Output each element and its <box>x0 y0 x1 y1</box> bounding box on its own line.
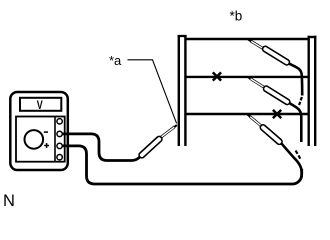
dashed crossing behind probe P3 cable <box>299 97 302 105</box>
probe P4 body <box>259 124 283 146</box>
probe P1 tip <box>174 125 177 127</box>
terminal strip divider <box>54 117 56 162</box>
wire W1 <box>186 38 307 40</box>
probe P2 body <box>262 45 291 66</box>
cable from probe P3 joining riser <box>289 103 301 142</box>
break mark X2 on wire W3 <box>273 110 281 118</box>
voltmeter body <box>10 92 68 170</box>
dial knob <box>25 130 44 149</box>
probe P1 needle <box>160 127 174 138</box>
probe P2 tip <box>248 40 251 42</box>
probe P3 tip <box>248 77 251 79</box>
negative lead from terminal 2 <box>62 134 140 161</box>
terminal 4 <box>57 155 62 160</box>
test probe P4 on wire W3 <box>247 114 283 145</box>
plus sign <box>44 143 49 148</box>
connector B (right rail) <box>308 36 317 146</box>
probe P3 needle <box>250 78 264 87</box>
cable from probe P4 joining positive lead <box>281 143 301 177</box>
terminal 2 <box>57 131 62 136</box>
probe P3 body <box>263 85 291 105</box>
label V <box>37 100 43 112</box>
svg-text:N: N <box>3 192 15 210</box>
label *a <box>109 53 122 68</box>
probe P4 needle <box>250 116 262 126</box>
test probe P3 on wire W2 <box>248 77 291 106</box>
probe P4 tip <box>247 114 250 116</box>
wire W3 <box>186 113 307 115</box>
dashed crossing behind probe P4 cable <box>296 151 301 159</box>
minus sign <box>44 131 48 133</box>
probe P2 needle <box>251 41 264 49</box>
break mark X1 on wire W2 <box>213 72 221 80</box>
probe P1 body <box>138 135 163 159</box>
voltmeter display window <box>20 98 61 111</box>
wire W2 <box>186 76 307 78</box>
voltmeter panel <box>16 117 65 162</box>
connector A (left rail) <box>178 35 187 146</box>
terminal 3 <box>57 143 62 148</box>
positive lead from terminal 3 <box>62 146 302 184</box>
label N <box>3 192 15 210</box>
label *b <box>230 9 243 24</box>
terminal 1 <box>57 119 62 124</box>
riser cable from probe P2 <box>289 63 303 95</box>
svg-text:V: V <box>37 100 43 112</box>
leader line to connector A <box>128 60 177 124</box>
test probe P2 on wire W1 <box>248 40 290 66</box>
svg-text:*a: *a <box>109 53 122 68</box>
test probe P1 (meter lead) <box>138 125 177 159</box>
svg-text:*b: *b <box>230 9 243 24</box>
